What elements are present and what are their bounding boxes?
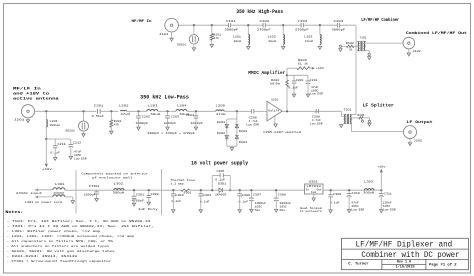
label FT301 xyxy=(89,185,100,188)
node rail C306 xyxy=(239,189,241,191)
label Heat Sinked xyxy=(300,206,322,210)
svg-text:0.1uF: 0.1uF xyxy=(288,86,298,89)
label C102 value xyxy=(257,28,271,32)
wire splitter circle 2 stub xyxy=(368,118,370,120)
inductor L201 xyxy=(45,120,48,128)
label C311 105C xyxy=(383,205,391,208)
wire C202 stub xyxy=(138,111,140,116)
diode D204 xyxy=(235,136,238,139)
label L202 xyxy=(119,103,129,107)
label C103 value xyxy=(295,28,309,32)
net +18V arrow down xyxy=(45,164,48,168)
svg-text:T201: T201 xyxy=(344,108,352,111)
label C307 xyxy=(253,193,262,196)
wire bias vertical bottom xyxy=(286,87,288,112)
capacitor C311 xyxy=(379,194,384,197)
svg-text:- T101: Pri. 10t Bifilar; Sec: - T101: Pri. 10t Bifilar; Sec. 7 t, 30 A… xyxy=(7,219,151,223)
svg-text:1N4003: 1N4003 xyxy=(215,193,227,196)
capacitor C302 xyxy=(147,195,152,197)
label C104 xyxy=(334,19,344,23)
title block vline 2 xyxy=(425,259,427,269)
feedthrough FT301 xyxy=(94,190,99,194)
label R202 xyxy=(271,79,279,82)
wire C306 stub xyxy=(239,190,241,194)
inductor L102 xyxy=(283,35,284,45)
label J201 xyxy=(14,119,25,122)
wire L201 stub xyxy=(45,111,47,119)
svg-text:T101: T101 xyxy=(360,36,367,39)
terminal circle splitter 1 xyxy=(361,120,363,122)
label U301 Com xyxy=(311,191,317,194)
label SG101 xyxy=(177,44,186,47)
label C212 105C xyxy=(74,154,82,157)
label L204 xyxy=(177,103,187,107)
ground C204 xyxy=(194,127,197,130)
label components mounted 2 xyxy=(92,175,133,179)
wire C301 gnd stub xyxy=(133,198,135,203)
wire C301 stub xyxy=(133,190,135,196)
ground L102 xyxy=(282,46,285,49)
svg-text:LF Output: LF Output xyxy=(407,121,434,125)
title author xyxy=(348,262,369,267)
label L102 value 18uH xyxy=(268,40,276,43)
label C206 Low ESR xyxy=(246,124,259,127)
inductor L301 top xyxy=(53,188,65,190)
svg-text:L103: L103 xyxy=(304,36,312,39)
label L205 value 47uH xyxy=(216,112,226,116)
wire LP main 2 xyxy=(100,110,118,112)
svg-text:350 kHz High-Pass: 350 kHz High-Pass xyxy=(236,9,283,15)
label L101 value 18uH xyxy=(233,40,241,43)
label C211 value xyxy=(50,152,60,155)
node clamp tap xyxy=(236,110,238,112)
svg-text:to enclosure: to enclosure xyxy=(300,209,322,213)
title line 2 xyxy=(361,250,459,260)
label C309 value xyxy=(330,201,340,204)
svg-text:C211: C211 xyxy=(58,143,66,146)
svg-text:3900pF: 3900pF xyxy=(332,28,346,32)
label and +18V to xyxy=(13,91,50,96)
svg-text:18uH: 18uH xyxy=(233,40,241,43)
label Combined LF/MF/HF Out xyxy=(406,31,468,36)
ground J201 xyxy=(26,120,29,123)
label R102 value 51 xyxy=(349,49,353,52)
capacitor C101 xyxy=(229,23,231,27)
svg-text:and +18V to: and +18V to xyxy=(13,91,50,96)
label L303 xyxy=(364,180,373,183)
ground C211 xyxy=(54,157,57,160)
ground C303 xyxy=(172,210,175,213)
ground J202 xyxy=(408,143,411,146)
svg-text:Components mounted on interior: Components mounted on interior xyxy=(81,171,148,175)
wire L103 stub xyxy=(319,25,321,34)
label L202 value 47uH xyxy=(120,112,130,116)
svg-text:D203: D203 xyxy=(239,130,248,133)
wire amp to T201 down xyxy=(341,111,343,116)
resistor R102 xyxy=(346,45,354,48)
svg-text:F301: F301 xyxy=(184,191,192,194)
svg-text:47k: 47k xyxy=(114,123,120,127)
label C310 Low ESR xyxy=(351,208,364,211)
wire C303 gnd stub xyxy=(172,196,174,210)
wire C304 stub xyxy=(200,190,202,194)
svg-text:1000pF: 1000pF xyxy=(84,194,96,197)
ground AC input xyxy=(71,201,74,204)
node LP-C202 xyxy=(137,110,139,112)
svg-text:C309: C309 xyxy=(333,193,342,196)
svg-text:1.1 amp: 1.1 amp xyxy=(170,182,184,185)
label C210 105C xyxy=(311,89,319,92)
wire R203 left xyxy=(287,67,297,69)
wire C210 gnd stub xyxy=(307,84,309,94)
label C301 xyxy=(136,193,145,196)
wire clamp left vertical xyxy=(226,119,228,146)
label J102 xyxy=(413,50,421,53)
label R202 value 100 Ohm xyxy=(270,82,281,86)
svg-text:Low ESR: Low ESR xyxy=(310,93,323,96)
wire C309 stub xyxy=(330,190,332,195)
svg-text:68uH: 68uH xyxy=(151,112,161,116)
svg-text:L202: L202 xyxy=(119,103,129,107)
label L204 value 68uH xyxy=(180,112,190,116)
svg-text:3900pF: 3900pF xyxy=(225,28,239,32)
ground C311 xyxy=(380,210,383,213)
label C307 50v xyxy=(255,209,261,212)
note line 5 xyxy=(7,239,114,243)
wire +18V up xyxy=(380,172,382,190)
wire bias horizontal xyxy=(46,138,71,140)
label C311 xyxy=(384,192,392,195)
svg-text:- D201-D204: 1N914, 1N4148: - D201-D204: 1N914, 1N4148 xyxy=(7,255,78,258)
ground C302 xyxy=(147,202,150,205)
wire clamp right vertical xyxy=(236,111,238,146)
svg-text:C307: C307 xyxy=(253,193,262,196)
connector J102 xyxy=(403,37,415,49)
ground C301 xyxy=(132,203,135,206)
label C210 xyxy=(310,79,318,82)
label C311 value 220uF xyxy=(383,201,392,204)
label C307 value 1000uF xyxy=(255,202,267,205)
label HF/MF In xyxy=(132,19,153,24)
ground R101 xyxy=(210,44,213,47)
wire FT301 gnd stub xyxy=(96,194,98,199)
net +18V arrow at R203 xyxy=(312,67,315,70)
wire bias caps horizontal xyxy=(287,74,308,76)
wire L102 stub xyxy=(282,25,284,34)
label D301 value 1N4003 xyxy=(215,193,227,196)
capacitor C212 xyxy=(68,144,73,147)
wire AC bottom gnd stub xyxy=(72,197,74,201)
resistor R202 xyxy=(286,80,289,87)
label C309 xyxy=(333,193,342,196)
node HP-L102 xyxy=(282,24,284,26)
label C210 value 47uF xyxy=(311,86,319,89)
label L102 xyxy=(268,36,276,39)
label J101 xyxy=(159,33,169,36)
svg-text:- T201: Pri 14 t 30 AWG on BN: - T201: Pri 14 t 30 AWG on BN202-43; Sec… xyxy=(7,224,155,228)
label T101 xyxy=(360,36,367,39)
node HP-L103 xyxy=(319,24,321,26)
label Gali74 xyxy=(268,109,279,113)
svg-text:L204: L204 xyxy=(177,103,187,107)
wire R206 to circle xyxy=(362,119,364,120)
diode D301 xyxy=(219,188,222,192)
svg-text:Out: Out xyxy=(317,189,323,192)
svg-text:J201: J201 xyxy=(14,119,25,122)
wire LP main 3 xyxy=(126,110,146,112)
wire C308 gnd stub xyxy=(275,201,277,209)
wire C307 gnd stub xyxy=(250,201,252,209)
resistor R201 xyxy=(110,120,113,128)
svg-text:- SG101, SG201: 90 volt gas d: - SG101, SG201: 90 volt gas discharge tu… xyxy=(7,249,116,253)
label LF Splitter xyxy=(363,103,395,108)
svg-text:SG101: SG101 xyxy=(177,44,186,47)
title block vline 1 xyxy=(381,259,383,269)
svg-text:0.56uF: 0.56uF xyxy=(92,114,105,118)
node rail end xyxy=(380,189,382,191)
wire LP main 6 xyxy=(224,110,251,112)
label to enclosure xyxy=(300,209,322,213)
regulator U301 xyxy=(305,184,324,194)
wire combiner vertical xyxy=(355,25,357,114)
wire +18V feed xyxy=(45,139,47,164)
inductor L204 xyxy=(176,109,187,111)
label C208 Low ESR xyxy=(310,123,323,126)
label C307 105C xyxy=(255,206,263,209)
svg-text:Gali74: Gali74 xyxy=(268,109,279,113)
wire C203 stub xyxy=(167,111,169,116)
wire C308 stub xyxy=(275,190,277,198)
label C310 xyxy=(352,192,361,195)
wire C311 stub xyxy=(380,190,382,194)
ground SG101 xyxy=(192,48,195,51)
svg-text:300uH: 300uH xyxy=(50,124,60,127)
wire SG201 gnd stub xyxy=(83,131,85,134)
wire SG101 gnd stub xyxy=(193,44,195,48)
wire L201 to node xyxy=(45,127,47,139)
svg-text:LF/MF/HF Combiner: LF/MF/HF Combiner xyxy=(361,18,399,23)
wire clamp cross xyxy=(227,118,237,120)
wire rail 4 xyxy=(323,189,381,191)
wire SG201 stub xyxy=(83,111,85,121)
wire C204 gnd stub xyxy=(195,118,197,127)
svg-text:Page #1 of 2: Page #1 of 2 xyxy=(429,262,457,267)
label C303 value xyxy=(172,200,182,203)
label U301 xyxy=(309,180,318,183)
label C308 xyxy=(278,193,287,196)
wire C211 gnd stub xyxy=(54,148,56,158)
note line 9 xyxy=(7,259,112,263)
enclosure wall line left xyxy=(75,170,77,213)
svg-text:C212: C212 xyxy=(73,142,81,145)
wire R203 right xyxy=(310,67,312,69)
label Thermal Fuse xyxy=(170,178,195,182)
node LP-SG201 xyxy=(82,110,84,112)
label C212 value 47uF xyxy=(74,151,82,154)
capacitor C204 xyxy=(194,116,199,118)
ground C309 xyxy=(329,210,332,213)
label C308 105C xyxy=(280,206,288,209)
label U201 xyxy=(271,98,278,101)
wire AC top 1 xyxy=(35,189,53,191)
label LM7818 xyxy=(306,185,321,188)
svg-text:L205: L205 xyxy=(216,103,226,107)
transformer T101 xyxy=(357,41,366,51)
node LP-C203 xyxy=(166,110,168,112)
label C101 xyxy=(226,19,236,23)
title rev xyxy=(397,260,411,264)
svg-text:LM7818: LM7818 xyxy=(306,185,321,188)
label L302 value 300uH xyxy=(113,191,125,194)
svg-text:Thermal Fuse: Thermal Fuse xyxy=(170,178,195,182)
svg-text:C102: C102 xyxy=(260,19,270,23)
svg-text:Combiner with DC power: Combiner with DC power xyxy=(361,250,459,260)
svg-text:U201: U201 xyxy=(271,98,278,101)
terminal circle splitter 2 xyxy=(368,120,370,122)
label C103 xyxy=(298,19,308,23)
wire L101 stub xyxy=(247,25,249,34)
label C301 value xyxy=(132,200,145,203)
svg-text:- L301: Bifilar power choke,: - L301: Bifilar power choke, >=2 amp xyxy=(7,229,101,233)
wire combiner line into T201 xyxy=(350,114,356,116)
node HP-R101 xyxy=(211,24,213,26)
label 24VAC input xyxy=(16,191,42,195)
diode D202 xyxy=(225,136,228,139)
svg-text:18 volt power supply: 18 volt power supply xyxy=(191,160,248,166)
capacitor C305 xyxy=(220,173,223,177)
svg-text:C203: C203 xyxy=(171,116,179,119)
title block rev divider xyxy=(382,263,426,265)
label C304 value xyxy=(200,200,210,203)
svg-text:C204: C204 xyxy=(186,114,194,117)
ground J102 xyxy=(407,53,410,56)
inductor L202 xyxy=(121,109,127,112)
ground U201 xyxy=(274,124,277,127)
svg-text:9400pF: 9400pF xyxy=(191,122,204,125)
ground R102 xyxy=(339,49,342,52)
label C306 xyxy=(242,194,251,197)
wire T201 left gnd stub xyxy=(340,124,342,125)
connector J101 xyxy=(165,18,179,32)
wire clamp gnd stub xyxy=(231,146,233,147)
label C305 xyxy=(217,170,225,173)
wire LP main 4 xyxy=(158,110,176,112)
svg-text:4.7uF: 4.7uF xyxy=(249,120,258,123)
svg-text:LF/MF/HF Diplexer and: LF/MF/HF Diplexer and xyxy=(356,240,453,250)
svg-text:0.1uF: 0.1uF xyxy=(330,201,340,204)
svg-text:MMIC Amplifier: MMIC Amplifier xyxy=(248,71,286,76)
svg-text:In: In xyxy=(306,189,310,192)
label C304 xyxy=(203,194,212,197)
inductor L302 xyxy=(114,188,124,190)
label D301 xyxy=(218,182,227,185)
wire C212 stub xyxy=(70,139,72,144)
svg-text:Combined LF/MF/HF Out: Combined LF/MF/HF Out xyxy=(406,31,468,36)
svg-text:4.7uF: 4.7uF xyxy=(312,119,321,122)
note line 2 xyxy=(7,224,155,228)
capacitor C203 xyxy=(165,116,170,118)
svg-text:J102: J102 xyxy=(413,50,421,53)
label C204 value xyxy=(191,122,204,125)
label 18 volt power supply xyxy=(191,160,248,166)
svg-text:Low ESR: Low ESR xyxy=(383,208,396,211)
svg-text:D204: D204 xyxy=(239,141,248,144)
svg-text:C210: C210 xyxy=(310,79,318,82)
wire J101 ground stub xyxy=(171,32,173,38)
wire HP to combiner xyxy=(340,24,356,26)
wire C306 gnd stub xyxy=(239,196,241,210)
svg-text:0.1uF: 0.1uF xyxy=(215,179,225,182)
label C302 xyxy=(151,193,160,196)
svg-text:- All inductors in filters are: - All inductors in filters are welded ty… xyxy=(7,244,110,248)
label C302 value 1uF Poly xyxy=(138,207,158,211)
net +18V arrow up xyxy=(380,169,383,173)
svg-text:Rev 1.0: Rev 1.0 xyxy=(397,260,411,264)
wire T201 sec top xyxy=(350,117,358,119)
label Notes heading xyxy=(5,211,23,215)
wire J102 gnd stub xyxy=(408,49,410,53)
svg-text:0.1uF: 0.1uF xyxy=(200,200,210,203)
label active antenna xyxy=(13,96,59,101)
note line 1 xyxy=(7,219,151,223)
wire J202 gnd stub xyxy=(409,139,411,143)
label C308 50v xyxy=(280,209,286,212)
label C212 xyxy=(73,142,81,145)
svg-text:51: 51 xyxy=(349,49,353,52)
label +18v input xyxy=(42,168,52,171)
label L103 xyxy=(304,36,312,39)
label FT301 value xyxy=(84,194,96,197)
ground C304 xyxy=(199,210,202,213)
svg-text:MF/LF In: MF/LF In xyxy=(13,87,42,92)
svg-text:1/15/2019: 1/15/2019 xyxy=(396,264,415,268)
wire LP main 5 xyxy=(187,110,216,112)
svg-text:C104: C104 xyxy=(334,19,344,23)
label R201 xyxy=(114,120,122,123)
wire C302 stub xyxy=(148,190,150,195)
title block divider 2 xyxy=(342,258,469,260)
node rail C308 xyxy=(275,189,277,191)
label C203 value xyxy=(164,122,177,125)
svg-text:D201: D201 xyxy=(217,121,226,124)
diode D203 xyxy=(235,125,238,128)
label R203 xyxy=(298,59,307,62)
node bias junction xyxy=(45,138,47,140)
wire C307 stub xyxy=(250,190,252,198)
label L203 value 68uH xyxy=(151,112,161,116)
label LF/MF/HF Combiner xyxy=(361,18,399,23)
label 9400pF note xyxy=(148,132,195,135)
capacitor C308 xyxy=(274,198,279,201)
capacitor C211 xyxy=(53,146,58,148)
label C208 value xyxy=(312,119,321,122)
label C101 value xyxy=(225,28,239,32)
label C202 value xyxy=(136,122,149,125)
label 1.1 amp xyxy=(170,182,184,185)
label L301 on power cord xyxy=(25,200,62,204)
label C203 xyxy=(171,116,179,119)
wire clamp bottom xyxy=(227,145,237,147)
svg-text:C311: C311 xyxy=(384,192,392,195)
wire AC bottom 1 xyxy=(35,196,53,198)
wire HP main 2 xyxy=(231,24,263,26)
wire J201 gnd stub xyxy=(27,118,29,120)
label R102 xyxy=(346,42,354,45)
svg-text:1uF Poly: 1uF Poly xyxy=(138,207,158,211)
svg-text:+18V: +18V xyxy=(316,67,324,70)
wire R101 stub top xyxy=(211,25,213,34)
svg-text:C310: C310 xyxy=(352,192,361,195)
